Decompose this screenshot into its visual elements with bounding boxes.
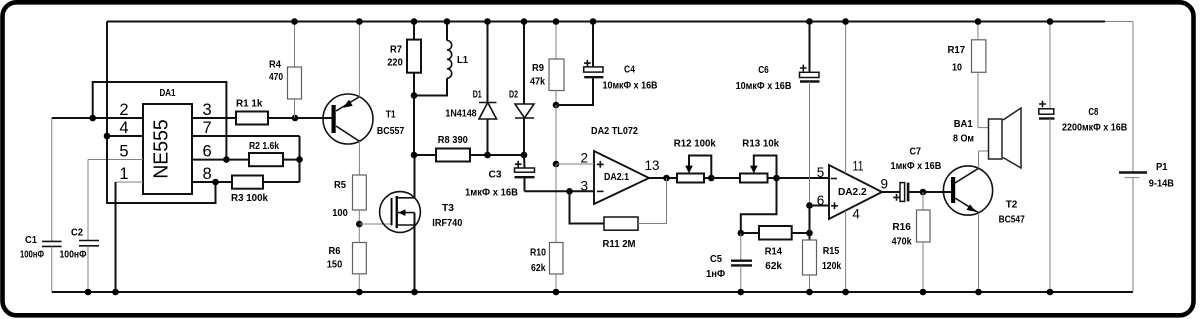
svg-text:2: 2 xyxy=(580,151,588,166)
svg-text:R12 100k: R12 100k xyxy=(674,138,716,150)
svg-text:DA1: DA1 xyxy=(160,87,176,99)
svg-text:11: 11 xyxy=(853,159,864,174)
svg-text:470k: 470k xyxy=(892,236,912,248)
svg-text:47k: 47k xyxy=(530,76,545,88)
svg-text:150: 150 xyxy=(327,259,343,271)
svg-text:470: 470 xyxy=(269,71,283,83)
svg-text:100: 100 xyxy=(332,207,348,219)
svg-text:8: 8 xyxy=(203,165,212,183)
svg-text:9-14В: 9-14В xyxy=(1149,178,1175,190)
svg-text:C1: C1 xyxy=(25,234,37,246)
svg-text:D2: D2 xyxy=(509,89,518,101)
svg-text:C7: C7 xyxy=(910,145,922,157)
svg-text:62k: 62k xyxy=(765,260,782,272)
svg-text:L1: L1 xyxy=(457,54,468,66)
svg-text:R6: R6 xyxy=(329,245,341,257)
svg-text:P1: P1 xyxy=(1156,161,1168,173)
svg-text:BC557: BC557 xyxy=(377,125,405,137)
svg-text:3: 3 xyxy=(203,101,212,119)
svg-text:R11 2M: R11 2M xyxy=(603,238,636,250)
svg-text:2200мкФ x 16В: 2200мкФ x 16В xyxy=(1062,121,1128,133)
svg-text:R16: R16 xyxy=(892,221,911,233)
svg-text:62k: 62k xyxy=(531,262,546,274)
svg-text:1: 1 xyxy=(119,165,128,183)
svg-text:R15: R15 xyxy=(823,245,840,257)
svg-text:13: 13 xyxy=(645,158,660,173)
svg-text:5: 5 xyxy=(817,165,825,180)
svg-text:100нФ: 100нФ xyxy=(60,249,87,261)
svg-text:R1 1k: R1 1k xyxy=(236,98,263,110)
svg-text:R5: R5 xyxy=(334,179,346,191)
svg-text:C2: C2 xyxy=(71,227,83,239)
svg-text:DA2.1: DA2.1 xyxy=(604,171,629,183)
svg-text:100нФ: 100нФ xyxy=(20,249,44,261)
svg-text:C8: C8 xyxy=(1088,106,1098,118)
svg-text:6: 6 xyxy=(817,193,825,208)
svg-text:R17: R17 xyxy=(948,44,966,56)
svg-text:4: 4 xyxy=(119,119,128,137)
svg-text:R2 1.6k: R2 1.6k xyxy=(249,140,279,152)
svg-text:2: 2 xyxy=(119,101,128,119)
svg-text:5: 5 xyxy=(119,143,128,161)
svg-text:DA2.2: DA2.2 xyxy=(838,186,867,198)
svg-text:R8 390: R8 390 xyxy=(438,134,468,146)
svg-text:R13 10k: R13 10k xyxy=(742,138,779,150)
svg-text:1мкФ x 16В: 1мкФ x 16В xyxy=(465,187,518,199)
svg-text:DA2 TL072: DA2 TL072 xyxy=(591,125,638,137)
svg-text:R7: R7 xyxy=(390,44,402,56)
svg-text:1мкФ x 16В: 1мкФ x 16В xyxy=(891,160,942,172)
svg-text:C6: C6 xyxy=(758,64,769,76)
svg-text:T1: T1 xyxy=(386,109,396,121)
svg-text:1нФ: 1нФ xyxy=(706,268,725,280)
svg-text:R14: R14 xyxy=(765,246,782,258)
svg-text:R10: R10 xyxy=(530,246,546,258)
svg-text:120k: 120k xyxy=(822,260,841,272)
svg-text:10: 10 xyxy=(952,61,962,73)
svg-text:IRF740: IRF740 xyxy=(432,217,462,229)
svg-text:6: 6 xyxy=(203,143,212,161)
svg-text:220: 220 xyxy=(387,57,403,69)
svg-text:BA1: BA1 xyxy=(954,118,973,130)
svg-text:10мкФ x 16В: 10мкФ x 16В xyxy=(736,80,792,92)
svg-text:C5: C5 xyxy=(710,253,722,265)
svg-text:1N4148: 1N4148 xyxy=(445,107,476,119)
svg-text:4: 4 xyxy=(852,207,860,222)
svg-text:C3: C3 xyxy=(489,169,502,181)
svg-text:3: 3 xyxy=(580,179,588,194)
svg-text:R3 100k: R3 100k xyxy=(231,192,268,204)
svg-text:D1: D1 xyxy=(473,89,482,101)
svg-text:8 Ом: 8 Ом xyxy=(953,132,974,144)
svg-text:7: 7 xyxy=(203,119,212,137)
svg-text:T3: T3 xyxy=(442,202,454,214)
svg-text:R9: R9 xyxy=(532,62,544,74)
svg-text:R4: R4 xyxy=(269,59,281,71)
svg-text:T2: T2 xyxy=(1006,198,1018,210)
svg-text:BC547: BC547 xyxy=(999,213,1025,225)
svg-text:10мкФ x 16В: 10мкФ x 16В xyxy=(603,80,658,92)
svg-text:NE555: NE555 xyxy=(151,119,173,179)
svg-text:9: 9 xyxy=(881,177,889,192)
svg-text:C4: C4 xyxy=(624,64,635,76)
